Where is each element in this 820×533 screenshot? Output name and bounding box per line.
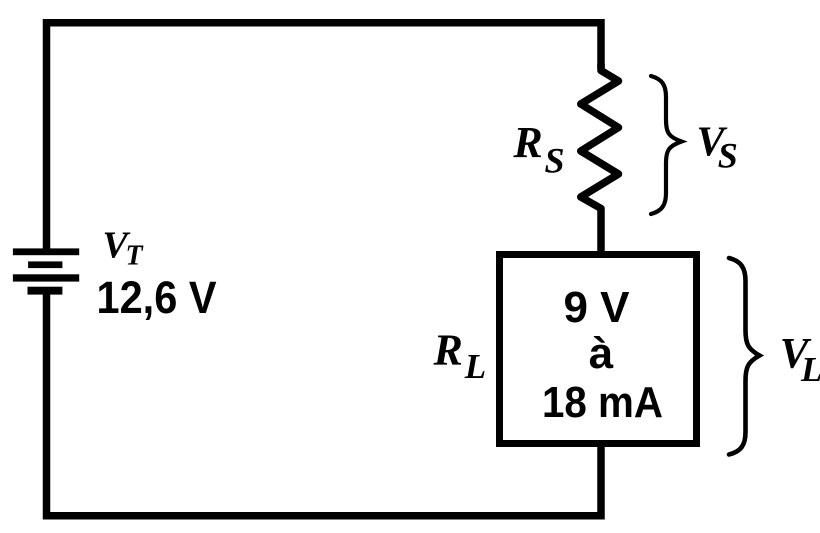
wire top-left loop (battery top to top rail to right drop) bbox=[47, 23, 602, 251]
battery VT plates bbox=[13, 248, 79, 294]
label VS bbox=[697, 120, 738, 176]
label RS bbox=[512, 118, 564, 180]
label RL bbox=[433, 326, 487, 386]
battery plate long bbox=[13, 274, 79, 281]
battery plate short bbox=[28, 261, 62, 268]
svg-text:S: S bbox=[545, 140, 565, 180]
label VL bbox=[780, 331, 820, 389]
brace VL bbox=[729, 258, 760, 455]
svg-text:9 V: 9 V bbox=[563, 283, 630, 332]
battery plate long top bbox=[13, 248, 79, 255]
load box RL bbox=[500, 255, 697, 444]
svg-text:L: L bbox=[800, 350, 820, 389]
battery plate short bottom bbox=[28, 287, 63, 295]
svg-text:18 mA: 18 mA bbox=[542, 378, 663, 427]
brace VS bbox=[651, 76, 682, 214]
resistor RS zigzag bbox=[581, 64, 619, 256]
svg-text:T: T bbox=[126, 240, 145, 271]
svg-text:S: S bbox=[718, 135, 738, 175]
svg-text:R: R bbox=[512, 118, 542, 167]
svg-text:à: à bbox=[589, 329, 614, 378]
label VT bbox=[103, 224, 145, 271]
svg-text:L: L bbox=[464, 347, 486, 386]
wire bottom loop (box bottom to bottom rail to battery) bbox=[47, 292, 602, 516]
svg-text:R: R bbox=[433, 326, 463, 375]
svg-text:12,6 V: 12,6 V bbox=[97, 272, 218, 323]
